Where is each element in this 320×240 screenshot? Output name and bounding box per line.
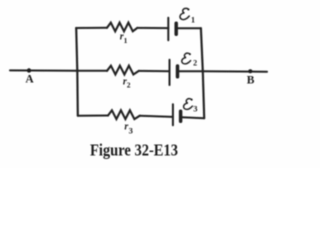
wire battery 2 to right bus — [178, 70, 203, 72]
battery E3 short plate — [179, 111, 183, 121]
emf label E1 script glyph — [180, 8, 189, 19]
svg-text:2: 2 — [127, 81, 131, 90]
svg-text:2: 2 — [193, 58, 197, 67]
left bus wire — [76, 28, 78, 116]
wire A to left bus — [10, 69, 77, 71]
battery E1 long plate — [167, 18, 169, 41]
svg-text:3: 3 — [193, 103, 197, 113]
battery E1 short plate — [174, 23, 178, 34]
emf label E2 script glyph — [182, 53, 191, 64]
emf label E3 script glyph — [184, 99, 193, 110]
wire right bus to B — [203, 70, 267, 73]
wire battery 3 to right bus — [182, 116, 205, 119]
svg-text:B: B — [247, 74, 255, 86]
battery E3 long plate — [172, 104, 174, 125]
svg-text:Figure 32-E13: Figure 32-E13 — [90, 142, 178, 160]
wire top-left — [76, 27, 107, 29]
wire R3 to battery 3 — [140, 116, 173, 117]
battery E2 short plate — [176, 66, 180, 77]
wire R1 to battery 1 — [137, 27, 168, 29]
node B — [248, 69, 252, 73]
resistor R1 — [107, 23, 137, 32]
resistor R2 — [107, 66, 139, 75]
wire left bus to R2 — [77, 70, 107, 72]
right bus wire — [201, 28, 204, 118]
svg-text:A: A — [25, 73, 34, 85]
resistor R3 — [108, 110, 140, 119]
battery E2 long plate — [169, 60, 171, 85]
node A — [27, 68, 31, 72]
wire R2 to battery 2 — [139, 70, 170, 72]
svg-text:3: 3 — [129, 126, 133, 136]
svg-text:1: 1 — [191, 15, 195, 24]
wire battery 1 to right bus — [177, 27, 201, 29]
wire left bus to R3 — [78, 115, 108, 117]
svg-text:1: 1 — [124, 36, 128, 45]
